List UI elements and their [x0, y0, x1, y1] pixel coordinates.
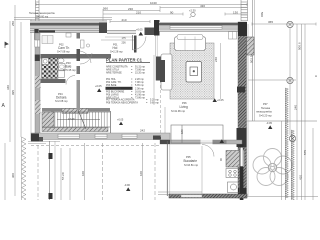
svg-text:Debara: Debara — [56, 96, 67, 100]
dim line right of corridor — [164, 107, 166, 133]
dimension line overall 1040 — [36, 4, 247, 6]
terrace railing ladder top-right — [241, 0, 248, 21]
hol lower wall — [80, 54, 111, 59]
hedge sawtooth right band 2 — [291, 130, 294, 200]
svg-text:995: 995 — [11, 90, 15, 95]
level mark bottom terrace — [124, 183, 130, 191]
dimension line right x301.5 — [301, 24, 303, 200]
svg-text:A: A — [315, 74, 317, 78]
corner dark top-right — [238, 22, 247, 34]
gate post 2 — [49, 193, 53, 199]
dashed continuation of hol/living wall — [160, 80, 162, 137]
svg-text:P08 TERASA NEACOPERITA: P08 TERASA NEACOPERITA — [106, 101, 138, 104]
wall pier dark x99-106 — [99, 23, 107, 34]
svg-text:S=2.28 mp: S=2.28 mp — [110, 50, 123, 54]
dark block at living/kitchen junction — [237, 128, 247, 147]
wall top living band x159-247 — [159, 22, 247, 34]
kitchen left wall thin — [167, 141, 170, 196]
svg-text:340: 340 — [6, 85, 10, 90]
wall top main band x30-106 — [30, 21, 107, 41]
terrace edge line right — [281, 121, 283, 200]
bath washing machine — [42, 58, 49, 65]
bath shower tray — [58, 71, 65, 78]
terrace outer face line x31 — [30, 19, 32, 141]
kitchen door dim line — [201, 146, 203, 194]
svg-text:365: 365 — [268, 20, 273, 24]
svg-text:9.60 mp: 9.60 mp — [150, 101, 159, 104]
dim line right of stipple — [220, 43, 222, 99]
door arc baie-debara — [66, 76, 75, 85]
svg-text:180: 180 — [180, 129, 184, 134]
svg-text:90: 90 — [170, 11, 174, 15]
door arcs hol — [80, 51, 92, 64]
dark wall segment right mid — [237, 87, 245, 93]
svg-text:S=9.60 mp: S=9.60 mp — [36, 15, 49, 18]
dimension vertical left x38 dashed — [37, 145, 39, 200]
wall vertical Hol / Living — [156, 57, 163, 81]
svg-text:250: 250 — [11, 21, 15, 26]
dimension labels top — [103, 1, 238, 22]
step edge below kitchen-left terrace — [158, 191, 202, 193]
svg-text:Baie: Baie — [65, 65, 72, 69]
level flag near stairs — [117, 119, 124, 126]
coffee table — [186, 62, 202, 83]
svg-text:240: 240 — [214, 57, 218, 62]
svg-text:S=5.35 mp: S=5.35 mp — [63, 68, 76, 72]
dark sill under window left — [39, 30, 55, 32]
window in bottom wall 3 — [122, 134, 137, 138]
svg-text:210: 210 — [122, 18, 127, 22]
window in kitchen right wall — [239, 150, 245, 167]
terrace railing ladder left — [36, 0, 40, 21]
hol wall stub — [134, 36, 137, 53]
svg-text:230: 230 — [128, 7, 133, 11]
svg-text:+0.05: +0.05 — [217, 98, 224, 102]
stairs direction arrow — [57, 119, 100, 121]
property line far left — [4, 143, 6, 200]
svg-text:100: 100 — [81, 171, 85, 176]
hedge zigzag left — [22, 137, 27, 201]
dimension line 210/90/130 row — [103, 13, 183, 15]
svg-text:130: 130 — [233, 11, 238, 15]
svg-text:430: 430 — [200, 4, 205, 8]
svg-text:240: 240 — [294, 105, 298, 110]
label Terasa neacoperita top — [29, 11, 55, 18]
wardrobe cam th — [42, 36, 53, 44]
level bubble +2.30 top center — [189, 9, 196, 19]
svg-text:S=5.20 mp: S=5.20 mp — [259, 114, 272, 118]
kitchen right wall dark core — [240, 144, 244, 200]
svg-text:-0.90: -0.90 — [124, 183, 130, 187]
stairs break line — [78, 110, 86, 129]
window in left wall — [35, 40, 40, 47]
svg-text:73.86 mp: 73.86 mp — [135, 96, 146, 99]
dark segment mid — [35, 55, 40, 62]
svg-text:210: 210 — [136, 11, 141, 15]
svg-text:57.20: 57.20 — [61, 172, 65, 180]
svg-text:neacoperita: neacoperita — [256, 110, 272, 114]
dimension line right x305 — [304, 24, 306, 200]
wall between Baie and Debara — [41, 79, 66, 83]
stairs hatched band below — [42, 128, 108, 132]
svg-text:575: 575 — [303, 150, 307, 155]
hatched segment — [35, 76, 41, 88]
living window band — [170, 26, 222, 30]
table highlighted row — [106, 87, 133, 90]
dimension horizontal right mid — [248, 79, 296, 81]
gate post 1 — [49, 153, 53, 159]
tick marks top — [35, 3, 37, 6]
wall living bottom / kitchen top — [160, 140, 242, 145]
dimension line left x21 — [20, 22, 22, 137]
svg-text:-0.05: -0.05 — [266, 121, 272, 125]
boundary line right x290 — [289, 27, 291, 135]
bath sink — [58, 58, 64, 62]
radiator under window — [66, 33, 71, 37]
bath checker floor — [42, 58, 59, 79]
tree circle right mid — [287, 77, 293, 83]
svg-text:Bucatarie: Bucatarie — [184, 159, 198, 163]
kitchen door arc — [202, 145, 214, 157]
svg-text:ARIE TERASE: ARIE TERASE — [106, 72, 122, 75]
dimension vertical left x70 — [69, 148, 71, 200]
level mark terasa — [266, 121, 272, 129]
north flag — [5, 42, 8, 48]
svg-text:1040: 1040 — [150, 1, 157, 5]
wall between Debara and stairs — [42, 108, 110, 112]
svg-text:502.5: 502.5 — [250, 55, 254, 63]
dimension vertical bottom x155 dashed — [154, 143, 156, 200]
window in bottom wall 1 — [58, 134, 80, 138]
svg-text:500: 500 — [260, 12, 264, 17]
svg-text:300: 300 — [11, 173, 15, 178]
svg-text:S=2.08 mp: S=2.08 mp — [55, 99, 68, 103]
svg-text:236: 236 — [122, 42, 127, 45]
svg-text:+0.05: +0.05 — [117, 119, 124, 122]
dimension vertical bottom x102.5 dashed — [102, 143, 104, 200]
kitchen bottom wall — [169, 194, 247, 198]
table side dim line — [153, 55, 155, 105]
terrace roof line right — [247, 120, 317, 122]
tv stand living right wall — [229, 32, 237, 40]
flower planter — [253, 149, 292, 186]
bottom line right — [247, 196, 318, 198]
sofa left L — [161, 54, 172, 90]
stairs side hatched strip — [42, 112, 54, 127]
svg-text:S=7.08 mp: S=7.08 mp — [57, 50, 70, 54]
dimension vertical bottom x84.5 — [84, 143, 86, 200]
svg-text:+0.05: +0.05 — [136, 28, 143, 32]
kitchen stove — [226, 169, 240, 178]
level mark entry — [136, 28, 143, 36]
svg-text:Living: Living — [180, 105, 189, 109]
dimension line left x10 — [9, 21, 11, 142]
dimension line left x15 — [14, 5, 16, 196]
dimension line 230 row — [103, 10, 160, 12]
hol floor drain circle — [86, 44, 89, 47]
corner dark bottom-left — [31, 134, 39, 142]
step edge below wall left — [28, 141, 60, 143]
level mark debara — [95, 84, 102, 92]
svg-text:PLAN PARTER C1: PLAN PARTER C1 — [106, 58, 143, 63]
dark pier in bottom wall — [153, 136, 161, 140]
svg-text:410: 410 — [299, 175, 303, 180]
dimension line 210 row at entry — [110, 21, 150, 23]
svg-text:100: 100 — [139, 171, 143, 176]
svg-text:15.20 mp: 15.20 mp — [135, 72, 146, 75]
dimension line 430 row — [160, 7, 247, 9]
svg-text:S=16.81 mp: S=16.81 mp — [184, 163, 199, 167]
porch edge line — [105, 36, 135, 38]
living stippled carpet — [170, 43, 214, 99]
terrace slab edge top-left — [14, 17, 112, 19]
dimension line right x313 — [312, 128, 314, 200]
svg-text:175: 175 — [122, 37, 127, 40]
window in bottom wall 2 — [95, 134, 107, 138]
wall between Cam Th and Baie — [41, 54, 81, 59]
entry pier dark x144-154 — [145, 28, 155, 36]
hedge sawtooth right band 1 — [285, 88, 288, 200]
svg-text:+0.05: +0.05 — [95, 84, 102, 88]
shelf rect right of camth wall — [81, 40, 85, 48]
dimension vertical bottom x142.5 — [142, 143, 144, 200]
level triangle at rug — [220, 139, 225, 143]
big pier dark x154-159 — [154, 20, 160, 36]
kitchen sink — [228, 182, 240, 193]
tree circle right lower — [289, 135, 295, 141]
bath toilet — [59, 64, 66, 71]
svg-text:S=41.96 mp: S=41.96 mp — [171, 109, 186, 113]
door frame lines below pier — [155, 36, 157, 57]
wall vertical Cam Th / Hol with door gaps — [77, 33, 81, 110]
dimension horizontal top right — [252, 23, 316, 25]
roof overhang dashed line bottom of plan — [31, 145, 160, 147]
svg-text:500.6: 500.6 — [298, 42, 302, 50]
hol dims — [101, 39, 136, 41]
terrace edge vertical double — [252, 0, 254, 121]
entry door leaf and arc — [133, 35, 147, 50]
svg-text:Cam Th: Cam Th — [58, 46, 70, 50]
corner blob top-left — [34, 29, 38, 40]
staircase treads — [51, 112, 110, 127]
svg-text:+2.30: +2.30 — [189, 9, 196, 13]
tree circle top right — [287, 21, 293, 27]
chimney hatched block on terrace — [247, 37, 255, 55]
dimension line right x297 — [296, 24, 298, 200]
door gap living-kitchen — [201, 140, 213, 145]
sofa top — [175, 37, 206, 51]
dimension vertical left x61 — [60, 148, 62, 200]
dining rug rect bottom of living — [171, 125, 223, 143]
recessed entry window band x108-134 — [107, 30, 136, 33]
kitchen counter fridge hatched — [226, 151, 240, 168]
svg-text:560: 560 — [103, 7, 108, 11]
stair side wall line — [110, 111, 112, 133]
svg-text:Hol: Hol — [113, 46, 118, 50]
svg-text:242: 242 — [140, 129, 145, 133]
